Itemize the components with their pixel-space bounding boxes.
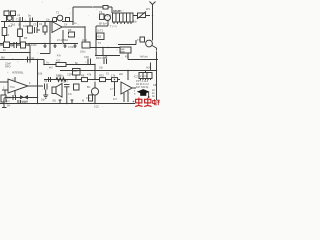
svg-text:4.7: 4.7 [110, 87, 114, 91]
svg-text:R32: R32 [99, 74, 104, 78]
svg-text:1m: 1m [6, 99, 10, 103]
svg-text:filter: filter [121, 51, 126, 54]
svg-text:10k: 10k [38, 72, 43, 76]
svg-text:47nF: 47nF [68, 45, 74, 49]
svg-text:47n: 47n [86, 96, 91, 100]
svg-text:455: 455 [125, 56, 130, 59]
svg-text:R9: R9 [68, 28, 72, 32]
svg-text:9V: 9V [7, 104, 10, 108]
svg-text:10n: 10n [133, 21, 138, 24]
svg-text:C2P: C2P [67, 73, 72, 77]
svg-text:4k7: 4k7 [49, 67, 54, 70]
svg-text:422: 422 [56, 59, 61, 63]
svg-text:S042P: S042P [113, 10, 121, 13]
svg-text:M: M [82, 99, 84, 103]
svg-text:IC2: IC2 [134, 76, 138, 79]
svg-text:NPO: NPO [5, 65, 11, 69]
svg-text:T ı* ¹*l: T ı* ¹*l [110, 26, 117, 29]
svg-text:4n7: 4n7 [113, 98, 118, 101]
svg-text:2k2: 2k2 [119, 73, 124, 76]
svg-text:17k: 17k [111, 74, 116, 78]
svg-text:BF 9c4: BF 9c4 [99, 23, 107, 26]
svg-text:3 5 Z 8: 3 5 Z 8 [140, 76, 148, 78]
svg-text:47u: 47u [68, 93, 73, 96]
svg-text:10n: 10n [41, 99, 46, 102]
svg-text:8Ω: 8Ω [53, 99, 56, 103]
svg-text:10k: 10k [23, 24, 28, 28]
svg-text:2k2: 2k2 [8, 24, 13, 28]
svg-text:10n: 10n [46, 19, 51, 22]
svg-text:AGC: AGC [146, 67, 151, 70]
svg-text:INTERSIL: INTERSIL [12, 71, 24, 75]
svg-text:125: 125 [103, 55, 108, 59]
svg-text:BC: BC [87, 86, 91, 89]
svg-text:100n: 100n [80, 51, 86, 54]
svg-text:47n: 47n [57, 55, 62, 58]
svg-text:BF199: BF199 [104, 15, 112, 18]
svg-text:C12: C12 [30, 57, 35, 60]
svg-text:10k: 10k [7, 96, 12, 100]
svg-text:R8: R8 [81, 74, 85, 78]
svg-text:C3: C3 [33, 23, 37, 27]
svg-text:TCA: TCA [10, 86, 15, 89]
svg-text:R12: R12 [82, 38, 87, 42]
svg-text:W1: W1 [146, 7, 150, 11]
svg-text:0.22: 0.22 [94, 106, 99, 109]
svg-text:240: 240 [22, 100, 27, 104]
svg-text:MA: MA [1, 56, 5, 60]
svg-text:R17 33k 5p: R17 33k 5p [136, 86, 149, 89]
svg-text:C47: C47 [63, 80, 68, 84]
svg-text:C36: C36 [84, 55, 89, 59]
svg-text:AM det: AM det [140, 56, 148, 59]
svg-text:R18: R18 [56, 75, 61, 78]
svg-text:455: 455 [97, 36, 102, 39]
svg-text:47k: 47k [87, 73, 92, 77]
svg-text:1k T3: 1k T3 [97, 30, 104, 33]
